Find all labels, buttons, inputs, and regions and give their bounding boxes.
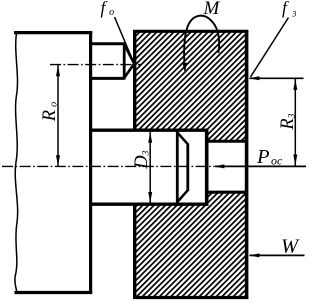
neck bottom edge: [205, 191, 248, 194]
block bottom edge: [133, 296, 248, 299]
countersink bottom chamfer: [177, 190, 188, 202]
svg-text:W: W: [281, 235, 300, 257]
arrow W left: [249, 253, 260, 257]
arrow M down: [182, 62, 187, 73]
left plate wavy break edge: [15, 31, 18, 293]
plunger end wall: [205, 129, 209, 206]
left plate right edge: [89, 31, 92, 294]
plunger top edge: [89, 128, 208, 131]
moment M curved arrow: [184, 16, 219, 62]
hatched block fill above neck: [207, 130, 247, 141]
arrow Poc left: [214, 164, 225, 168]
plunger bottom edge: [89, 202, 208, 205]
pin stub end face: [123, 43, 126, 80]
left plate top edge: [14, 31, 92, 34]
pin stub top edge: [90, 42, 124, 45]
hatched clamp block fill upper: [135, 31, 247, 130]
hatched block fill below neck: [207, 192, 247, 204]
dimension R3 line: [294, 79, 296, 166]
friction f3 reaction line: [250, 77, 304, 79]
force Poc line: [215, 165, 306, 167]
dimension Ro line: [57, 65, 59, 166]
leader fo: [115, 17, 134, 61]
arrow Ro down: [56, 155, 60, 166]
block right edge: [245, 30, 249, 299]
pin centerline: [50, 64, 141, 66]
pin stub bottom edge: [90, 77, 124, 80]
countersink top chamfer: [177, 133, 188, 145]
neck top edge: [205, 140, 248, 143]
main centerline: [2, 165, 214, 167]
arrow D down: [148, 192, 152, 203]
block left edge upper: [133, 30, 136, 132]
arrow Ro up: [56, 65, 60, 76]
arrow f3 left: [249, 76, 260, 80]
block top edge: [133, 30, 248, 33]
arrow R3 down: [293, 155, 297, 166]
svg-text:M: M: [203, 0, 221, 19]
dimension D line: [149, 132, 151, 203]
pin cone upper edge: [124, 44, 134, 64]
arrow D up: [148, 132, 152, 143]
force W line: [250, 254, 305, 256]
hatched clamp block fill lower: [135, 204, 247, 297]
arrow R3 up: [293, 79, 297, 90]
countersink outer face: [176, 132, 179, 204]
countersink inner face: [186, 143, 189, 191]
block left edge lower: [133, 203, 136, 299]
left plate bottom edge: [15, 291, 93, 294]
leader f3: [251, 18, 289, 78]
pin cone lower edge: [124, 64, 134, 78]
